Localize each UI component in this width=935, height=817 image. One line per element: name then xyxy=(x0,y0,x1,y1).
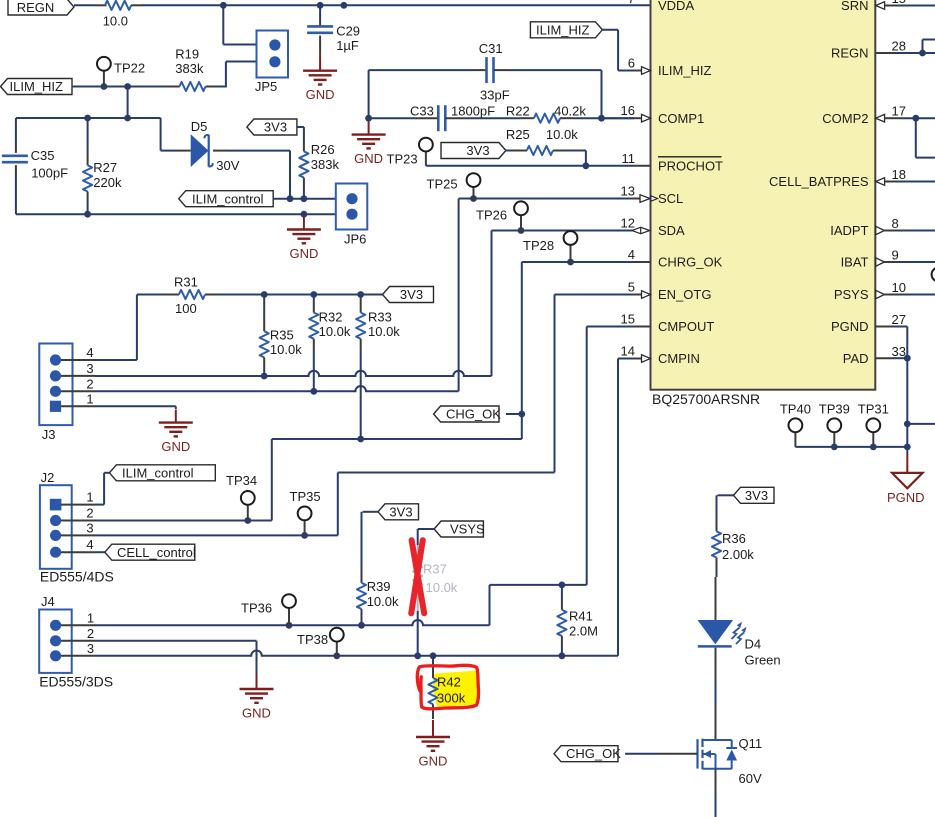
svg-text:R26: R26 xyxy=(311,142,335,157)
svg-text:TP34: TP34 xyxy=(226,473,257,488)
svg-text:CHRG_OK: CHRG_OK xyxy=(658,255,723,270)
svg-text:R37: R37 xyxy=(423,562,447,577)
svg-text:9: 9 xyxy=(892,248,899,263)
svg-text:1: 1 xyxy=(86,490,93,505)
svg-text:28: 28 xyxy=(892,39,906,54)
svg-text:C33: C33 xyxy=(410,104,434,119)
svg-text:TP26: TP26 xyxy=(476,208,507,223)
svg-text:GND: GND xyxy=(419,754,448,769)
svg-text:PAD: PAD xyxy=(843,351,869,366)
svg-text:ILIM_control: ILIM_control xyxy=(192,191,264,206)
svg-text:PGND: PGND xyxy=(831,319,869,334)
svg-text:VSYS: VSYS xyxy=(450,522,485,537)
svg-text:CHG_OK: CHG_OK xyxy=(566,746,621,761)
svg-text:TP39: TP39 xyxy=(819,402,850,417)
svg-text:J4: J4 xyxy=(41,594,55,609)
svg-text:TP28: TP28 xyxy=(523,238,554,253)
svg-text:4: 4 xyxy=(628,247,635,262)
svg-text:CMPIN: CMPIN xyxy=(658,351,700,366)
svg-text:2.00k: 2.00k xyxy=(722,547,754,562)
svg-text:3: 3 xyxy=(86,361,93,376)
svg-text:BQ25700ARSNR: BQ25700ARSNR xyxy=(652,391,760,407)
svg-text:15: 15 xyxy=(621,312,635,327)
svg-text:TP22: TP22 xyxy=(114,61,145,76)
svg-text:VDDA: VDDA xyxy=(658,0,694,13)
svg-text:CELL_BATPRES: CELL_BATPRES xyxy=(769,174,869,189)
svg-text:2: 2 xyxy=(86,376,93,391)
svg-text:3V3: 3V3 xyxy=(745,488,768,503)
svg-text:R36: R36 xyxy=(722,531,746,546)
svg-text:IBAT: IBAT xyxy=(841,255,869,270)
svg-text:TP23: TP23 xyxy=(387,151,418,166)
svg-text:REGN: REGN xyxy=(17,0,55,15)
svg-text:J3: J3 xyxy=(42,427,56,442)
svg-text:TP38: TP38 xyxy=(297,632,328,647)
svg-text:R25: R25 xyxy=(506,127,530,142)
svg-text:220k: 220k xyxy=(93,175,122,190)
svg-text:R42: R42 xyxy=(437,675,461,690)
svg-text:ED555/3DS: ED555/3DS xyxy=(39,674,113,690)
svg-text:R19: R19 xyxy=(175,47,199,62)
svg-text:3V3: 3V3 xyxy=(264,120,287,135)
svg-text:CHG_OK: CHG_OK xyxy=(446,407,501,422)
svg-text:R31: R31 xyxy=(174,275,198,290)
svg-text:13: 13 xyxy=(621,184,635,199)
svg-text:10: 10 xyxy=(892,280,906,295)
svg-text:14: 14 xyxy=(621,344,635,359)
svg-text:6: 6 xyxy=(628,56,635,71)
svg-text:40.2k: 40.2k xyxy=(554,104,586,119)
svg-text:383k: 383k xyxy=(311,157,340,172)
svg-text:GND: GND xyxy=(306,87,335,102)
svg-text:R22: R22 xyxy=(506,104,530,119)
svg-text:300k: 300k xyxy=(437,691,466,706)
svg-text:D4: D4 xyxy=(745,637,762,652)
svg-text:10.0k: 10.0k xyxy=(546,127,578,142)
svg-text:TP36: TP36 xyxy=(241,601,272,616)
svg-text:3: 3 xyxy=(86,520,93,535)
svg-text:12: 12 xyxy=(621,216,635,231)
svg-text:10.0k: 10.0k xyxy=(368,324,400,339)
svg-text:R39: R39 xyxy=(367,579,391,594)
svg-text:10.0: 10.0 xyxy=(103,13,128,28)
svg-text:2.0M: 2.0M xyxy=(569,624,598,639)
svg-text:1: 1 xyxy=(86,391,93,406)
svg-text:CMPOUT: CMPOUT xyxy=(658,319,714,334)
svg-text:ILIM_HIZ: ILIM_HIZ xyxy=(10,79,64,94)
svg-text:TP31: TP31 xyxy=(858,402,889,417)
svg-text:100: 100 xyxy=(175,301,197,316)
svg-text:C31: C31 xyxy=(479,41,503,56)
svg-text:17: 17 xyxy=(892,104,906,119)
svg-text:PSYS: PSYS xyxy=(834,287,869,302)
svg-text:4: 4 xyxy=(86,345,93,360)
svg-text:REGN: REGN xyxy=(831,46,869,61)
svg-text:3V3: 3V3 xyxy=(400,287,423,302)
svg-text:3V3: 3V3 xyxy=(389,504,412,519)
svg-text:Green: Green xyxy=(745,653,781,668)
svg-text:GND: GND xyxy=(354,151,383,166)
svg-text:30V: 30V xyxy=(216,158,239,173)
svg-text:TP35: TP35 xyxy=(290,489,321,504)
svg-text:60V: 60V xyxy=(739,771,762,786)
svg-text:SRN: SRN xyxy=(841,0,868,13)
svg-text:10.0k: 10.0k xyxy=(426,580,458,595)
svg-text:1µF: 1µF xyxy=(336,38,359,53)
svg-text:27: 27 xyxy=(892,312,906,327)
svg-text:ILIM_HIZ: ILIM_HIZ xyxy=(536,22,590,37)
svg-text:PGND: PGND xyxy=(887,490,925,505)
svg-text:5: 5 xyxy=(628,280,635,295)
svg-text:EN_OTG: EN_OTG xyxy=(658,287,711,302)
svg-text:33pF: 33pF xyxy=(480,87,510,102)
svg-text:1800pF: 1800pF xyxy=(451,104,495,119)
svg-text:10.0k: 10.0k xyxy=(319,324,351,339)
svg-text:1: 1 xyxy=(87,610,94,625)
svg-text:ILIM_HIZ: ILIM_HIZ xyxy=(658,63,712,78)
svg-text:GND: GND xyxy=(289,246,318,261)
svg-text:TP25: TP25 xyxy=(427,177,458,192)
svg-text:C29: C29 xyxy=(336,24,360,39)
svg-text:R33: R33 xyxy=(368,310,392,325)
svg-text:JP5: JP5 xyxy=(255,79,277,94)
svg-text:R27: R27 xyxy=(93,160,117,175)
svg-text:18: 18 xyxy=(892,167,906,182)
svg-text:R32: R32 xyxy=(319,310,343,325)
svg-text:COMP2: COMP2 xyxy=(822,111,868,126)
svg-text:33: 33 xyxy=(892,344,906,359)
svg-text:R35: R35 xyxy=(270,328,294,343)
svg-text:J2: J2 xyxy=(41,470,55,485)
svg-text:GND: GND xyxy=(242,706,271,721)
svg-text:ILIM_control: ILIM_control xyxy=(122,465,194,480)
svg-text:10.0k: 10.0k xyxy=(367,594,399,609)
svg-text:Q11: Q11 xyxy=(739,736,763,751)
svg-text:CELL_control: CELL_control xyxy=(117,545,196,560)
svg-text:C35: C35 xyxy=(31,148,55,163)
svg-text:3: 3 xyxy=(87,641,94,656)
svg-text:ED555/4DS: ED555/4DS xyxy=(40,569,114,585)
svg-text:2: 2 xyxy=(87,626,94,641)
svg-text:8: 8 xyxy=(892,216,899,231)
svg-text:3V3: 3V3 xyxy=(466,143,489,158)
svg-text:100pF: 100pF xyxy=(31,166,68,181)
svg-text:COMP1: COMP1 xyxy=(658,111,704,126)
svg-text:SCL: SCL xyxy=(658,191,683,206)
svg-text:GND: GND xyxy=(161,439,190,454)
svg-text:SDA: SDA xyxy=(658,223,685,238)
svg-text:D5: D5 xyxy=(191,119,208,134)
svg-text:PROCHOT: PROCHOT xyxy=(658,159,723,174)
svg-text:2: 2 xyxy=(86,506,93,521)
svg-text:R41: R41 xyxy=(569,609,593,624)
svg-text:11: 11 xyxy=(622,151,636,166)
svg-text:4: 4 xyxy=(86,537,93,552)
svg-text:IADPT: IADPT xyxy=(830,223,868,238)
svg-text:TP40: TP40 xyxy=(780,402,811,417)
svg-text:JP6: JP6 xyxy=(344,232,366,247)
svg-text:383k: 383k xyxy=(175,61,204,76)
svg-text:16: 16 xyxy=(621,103,635,118)
svg-text:10.0k: 10.0k xyxy=(270,342,302,357)
